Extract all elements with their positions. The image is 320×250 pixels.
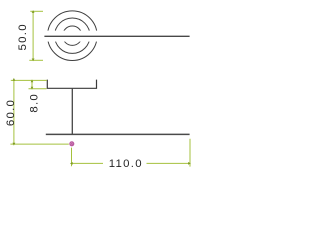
dim 110.0 extension line left — [71, 148, 73, 167]
dim 110.0 extension line right — [189, 139, 191, 167]
spindle stem (front view) — [71, 88, 73, 134]
lever bar (plan view) — [44, 35, 189, 37]
rose inner circle (plan view) — [63, 26, 82, 45]
dim 60.0 extension line top — [11, 79, 47, 81]
white break band over circles at lever height — [43, 31, 103, 42]
dim 60.0 extension line bottom — [10, 143, 68, 145]
dim 50.0 extension line top — [30, 10, 43, 12]
dim 50.0 line — [32, 11, 34, 60]
rose outer circle (plan view) — [48, 11, 98, 61]
svg-text:110.0: 110.0 — [109, 158, 143, 170]
dim 60.0 arrow top — [13, 78, 16, 81]
centre point marker cross — [71, 143, 73, 145]
svg-text:8.0: 8.0 — [29, 93, 41, 113]
rose profile (front view) — [47, 80, 96, 89]
dim 50.0 arrow bottom — [32, 59, 35, 62]
lever bar (front view) — [46, 133, 190, 135]
dim 8.0 line — [31, 80, 33, 88]
dim 110.0 line right segment — [147, 162, 191, 164]
dim 110.0 line left segment — [72, 162, 104, 164]
rose middle circle (plan view) — [55, 18, 90, 53]
dim 8.0 arrow bottom — [31, 87, 34, 90]
dim 60.0 arrow bottom — [13, 143, 16, 146]
dim 50.0 arrow top — [32, 10, 35, 13]
dim 50.0 extension line bottom — [29, 59, 43, 61]
svg-text:60.0: 60.0 — [5, 99, 17, 126]
dim 8.0 arrow top — [31, 79, 34, 82]
dim 8.0 extension line bottom — [29, 88, 47, 90]
dim 60.0 line — [13, 80, 15, 144]
svg-text:50.0: 50.0 — [17, 23, 29, 50]
dim 110.0 arrow left — [70, 162, 73, 165]
centre point marker — [70, 142, 74, 146]
dim 110.0 arrow right — [188, 162, 191, 165]
